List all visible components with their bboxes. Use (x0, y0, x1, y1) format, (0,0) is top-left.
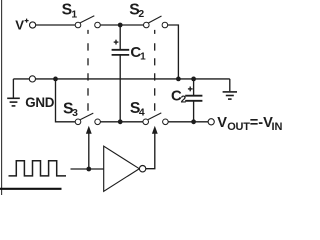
capacitor C2 plus mark (188, 87, 193, 92)
svg-text:3: 3 (72, 108, 78, 119)
wire oscillator to inverter input (71, 168, 104, 170)
svg-text:4: 4 (139, 107, 145, 118)
label C2 (171, 88, 187, 106)
dashed control line S2-S4 (154, 30, 156, 111)
capacitor C1 plus mark (114, 40, 119, 45)
wire C2 bottom lead to output (193, 101, 195, 122)
junction node bus C2 top (191, 77, 196, 82)
svg-text:1: 1 (71, 10, 77, 21)
label S1 (62, 1, 78, 20)
wire V+ to S1 (36, 24, 75, 26)
switch S4 (143, 113, 168, 125)
svg-text:OUT: OUT (227, 121, 250, 133)
switch S1 (75, 16, 100, 28)
oscillator square wave symbol (9, 161, 67, 176)
junction node bus S2 drop (176, 77, 181, 82)
wire S2 to bus corner (168, 25, 179, 79)
svg-text:1: 1 (140, 51, 146, 62)
wire S1 to S2 (100, 24, 143, 26)
svg-text:IN: IN (272, 121, 283, 133)
label GND (25, 95, 54, 110)
wire S3 to S4 (100, 121, 143, 123)
label S4 (130, 100, 145, 118)
terminal V+ (29, 22, 35, 28)
junction node C1 bottom (118, 119, 123, 124)
svg-text:2: 2 (138, 9, 144, 20)
junction node bus to S3 (53, 77, 58, 82)
control arrow to S4 (146, 126, 158, 169)
wire C1 bottom lead to S3-S4 node (119, 55, 121, 122)
terminal GND (29, 76, 35, 82)
dashed control line S1-S3 (87, 30, 89, 111)
switch S2 (144, 16, 168, 28)
capacitor C1 (112, 50, 130, 55)
wire C2 top lead (193, 79, 195, 96)
control arrow to S3 (86, 126, 92, 169)
figure left border rule (1, 0, 3, 195)
wire S4 to output terminal (168, 121, 208, 123)
label S3 (63, 101, 78, 120)
svg-text:V: V (15, 17, 24, 32)
junction node C2 bottom (191, 119, 196, 124)
wire C1 top lead (119, 25, 121, 50)
svg-text:=: = (250, 115, 259, 131)
terminal VOUT (208, 119, 214, 125)
svg-text:2: 2 (181, 94, 187, 105)
wire ground bus (13, 78, 229, 80)
ground left (7, 79, 20, 106)
label C1 (130, 44, 146, 62)
junction node inverter input (86, 167, 91, 172)
junction node C1 top (118, 23, 123, 28)
switch S3 (75, 113, 100, 125)
svg-text:GND: GND (25, 95, 54, 110)
label VOUT = -VIN (217, 115, 282, 133)
ground right (223, 79, 237, 99)
figure bottom-left border rule (0, 188, 62, 190)
label V+ (15, 17, 28, 32)
label S2 (129, 1, 144, 20)
inverter U1 (104, 146, 146, 191)
svg-text:V: V (217, 115, 227, 131)
wire bus to S3 drop (56, 79, 76, 122)
capacitor C2 (185, 96, 202, 101)
